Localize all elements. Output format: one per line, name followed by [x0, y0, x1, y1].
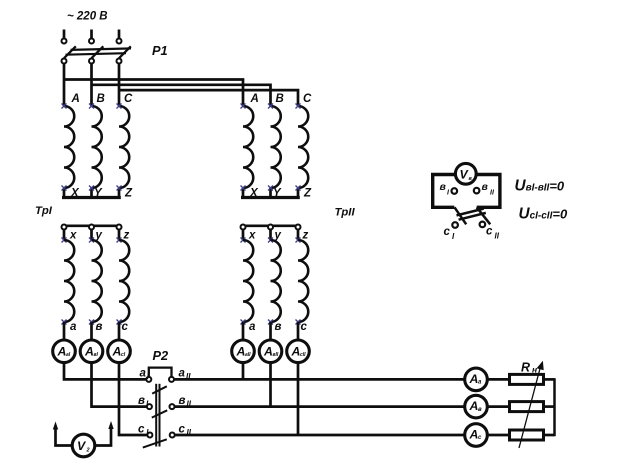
switch P1 blade pole B: [92, 46, 104, 58]
wire b TpI to ammeter: [90, 322, 93, 340]
svg-text:Z: Z: [303, 188, 312, 200]
svg-text:A: A: [250, 93, 259, 105]
winding TpII secondary c: [298, 240, 308, 322]
switch P2 closed bridge phase a: [149, 368, 172, 377]
svg-text:B: B: [97, 93, 105, 105]
wire resistor a to bus: [544, 378, 555, 381]
winding TpI secondary b: [92, 240, 102, 322]
switch P2 blade phase c: [143, 439, 167, 447]
inset terminal circle cI: [452, 222, 458, 228]
terminal x-mark a bottom TpI: [62, 320, 67, 325]
wire y terminal to TpI secondary winding: [90, 230, 93, 240]
svg-text:P1: P1: [152, 43, 168, 58]
wire Ac to resistor c: [487, 434, 510, 437]
inset jumper parallel rail upper: [457, 209, 484, 216]
ammeter AcI: [108, 340, 131, 363]
svg-text:a: a: [140, 368, 147, 380]
variable resistor arrow shaft: [519, 366, 541, 449]
wire Aa to resistor a: [487, 378, 510, 381]
svg-text:cI: cI: [121, 352, 126, 358]
terminal x-mark X TpII: [241, 186, 246, 191]
star bar TpI primary X-Y-Z: [62, 196, 121, 199]
winding TpII primary C: [298, 106, 308, 188]
terminal x-mark x top TpII secondary: [241, 238, 246, 243]
svg-text:Z: Z: [124, 188, 133, 200]
wire TpI winding A bottom to star bar: [63, 188, 66, 198]
inset terminal circle bI: [452, 188, 458, 194]
svg-text:R: R: [521, 361, 530, 375]
supply terminal stub phase C: [118, 30, 121, 39]
winding TpII primary B: [271, 106, 281, 188]
inset terminal circle bII: [474, 188, 480, 194]
svg-text:A: A: [112, 345, 122, 359]
svg-text:P2: P2: [153, 348, 169, 363]
switch P2 terminal aI: [146, 377, 151, 382]
winding TpII secondary a: [243, 240, 253, 322]
switch P1 crossbar upper line: [71, 48, 132, 50]
wire Ab to resistor b: [487, 405, 510, 408]
resistor Rn phase a: [510, 374, 544, 384]
svg-text:A: A: [71, 93, 80, 105]
terminal x-mark x top TpI secondary: [62, 238, 67, 243]
terminal x-mark C top TpI: [117, 104, 122, 109]
wire a TpI to ammeter: [63, 322, 66, 340]
switch P2 blade phase b: [152, 410, 167, 417]
wire TpII phase c down to line c: [297, 362, 300, 435]
terminal x-mark z top TpII secondary: [296, 238, 301, 243]
resistor Rn phase b: [510, 402, 544, 412]
voltmeter V2 right probe wire: [95, 428, 112, 446]
terminal x-mark c bottom TpII: [296, 320, 301, 325]
svg-text:в: в: [138, 395, 145, 407]
terminal x-mark A top TpI: [62, 104, 67, 109]
svg-text:c: c: [486, 226, 493, 238]
ammeter Ac load: [465, 424, 488, 447]
wire TpI phase b to P2 terminal bI: [92, 362, 147, 406]
switch P1 lower terminal circle C: [117, 59, 122, 64]
switch P1 lower terminal circle A: [62, 59, 67, 64]
switch P2 terminal cI: [147, 433, 152, 438]
terminal x-mark c bottom TpI: [117, 320, 122, 325]
ammeter Ab load: [465, 395, 488, 418]
svg-text:c: c: [138, 424, 145, 436]
wire TpII winding C bottom to star bar: [297, 188, 300, 198]
inset jumper right diagonal: [477, 207, 491, 224]
svg-text:вI: вI: [94, 352, 99, 358]
svg-text:A: A: [263, 345, 273, 359]
switch P2 shaft right line: [159, 384, 161, 447]
switch P2 blade phase a: [152, 386, 167, 393]
bus wire phase C to TpII: [119, 90, 298, 106]
svg-text:C: C: [303, 93, 312, 105]
svg-text:x: x: [248, 230, 256, 242]
wire TpI phase c to P2 terminal cI: [119, 362, 147, 435]
wire a TpII to ammeter: [242, 322, 245, 340]
svg-text:~ 220 В: ~ 220 В: [67, 11, 108, 23]
switch P1 crossbar lower line: [66, 53, 127, 55]
svg-text:A: A: [469, 399, 479, 413]
inset box outline: [433, 175, 500, 208]
voltmeter V2 right probe arrowhead: [108, 421, 113, 429]
terminal x-mark B top TpII: [268, 104, 273, 109]
terminal x-mark C top TpII: [296, 104, 301, 109]
bus wire phase A to TpII: [64, 80, 243, 107]
svg-text:cII: cII: [300, 352, 306, 358]
svg-text:II: II: [495, 232, 500, 241]
supply terminal stub phase A: [63, 30, 66, 39]
wire phase B down to TpI winding B: [90, 64, 93, 106]
switch P2 terminal bI: [147, 404, 152, 409]
svg-text:2: 2: [86, 448, 90, 454]
wire x terminal to TpII secondary winding: [242, 230, 245, 240]
svg-text:c: c: [301, 321, 308, 333]
svg-text:в: в: [440, 181, 447, 193]
svg-text:в: в: [179, 395, 186, 407]
wire phase C down to TpI winding C: [118, 64, 121, 106]
svg-text:TpII: TpII: [335, 207, 356, 219]
winding TpII secondary b: [271, 240, 281, 322]
supply terminal circle C: [117, 39, 122, 44]
winding TpI primary C: [119, 106, 129, 188]
wire TpII phase a down to line a: [242, 362, 245, 379]
terminal circle x TpII: [241, 225, 246, 230]
terminal x-mark a bottom TpII: [241, 320, 246, 325]
terminal circle z TpII: [296, 225, 301, 230]
svg-text:A: A: [84, 345, 94, 359]
ammeter AcII: [287, 340, 310, 363]
inset jumper parallel rail lower: [459, 213, 486, 220]
inset terminal circle cII: [480, 222, 486, 228]
terminal x-mark b bottom TpII: [268, 320, 273, 325]
svg-text:c: c: [444, 226, 451, 238]
switch P2 terminal aII: [169, 377, 174, 382]
terminal x-mark Z TpI: [117, 186, 122, 191]
terminal x-mark B top TpI: [89, 104, 94, 109]
wire resistor c to bus: [544, 434, 555, 437]
wire phase A down to TpI winding A: [63, 64, 66, 106]
wire c TpII to ammeter: [297, 322, 300, 340]
switch P2 terminal cII: [170, 433, 175, 438]
winding TpI primary A: [64, 106, 74, 188]
wire x terminal to TpI secondary winding: [63, 230, 66, 240]
ammeter AbII: [259, 340, 282, 363]
terminal x-mark Y TpI: [89, 186, 94, 191]
star bar TpII primary X-Y-Z: [241, 196, 300, 199]
svg-text:вII: вII: [273, 352, 279, 358]
svg-text:X: X: [249, 188, 259, 200]
ammeter AbI: [80, 340, 103, 363]
inset voltmeter V circle: [455, 163, 476, 184]
svg-text:в: в: [482, 181, 489, 193]
wire TpII winding A bottom to star bar: [242, 188, 245, 198]
svg-text:C: C: [124, 93, 133, 105]
wire b TpII to ammeter: [269, 322, 272, 340]
svg-text:в: в: [275, 321, 282, 333]
svg-text:н: н: [532, 365, 537, 375]
star bar TpII secondary x-y-z: [243, 224, 298, 227]
ammeter AaI: [53, 340, 76, 363]
wire TpI winding C bottom to star bar: [118, 188, 121, 198]
wire c TpI to ammeter: [118, 322, 121, 340]
star bar TpI secondary x-y-z: [64, 224, 119, 227]
svg-text:x: x: [69, 230, 77, 242]
svg-text:B: B: [276, 93, 284, 105]
terminal x-mark y top TpII secondary: [268, 238, 273, 243]
terminal circle y TpI: [89, 225, 94, 230]
svg-text:A: A: [469, 372, 479, 386]
winding TpI primary B: [92, 106, 102, 188]
terminal circle z TpI: [117, 225, 122, 230]
terminal circle x TpI: [62, 225, 67, 230]
terminal x-mark A top TpII: [241, 104, 246, 109]
wire TpII phase b down to line b: [269, 362, 272, 406]
line b from P2 to load: [175, 405, 465, 408]
wire y terminal to TpII secondary winding: [269, 230, 272, 240]
ammeter AaII: [232, 340, 255, 363]
bus wire phase B to TpII: [92, 85, 271, 106]
resistor Rn phase c: [510, 430, 544, 440]
svg-text:A: A: [469, 428, 479, 442]
supply terminal stub phase B: [90, 30, 93, 39]
wire z terminal to TpI secondary winding: [118, 230, 121, 240]
wire z terminal to TpII secondary winding: [297, 230, 300, 240]
wire resistor b to bus: [544, 405, 555, 408]
svg-text:aII: aII: [245, 352, 251, 358]
ammeter Aa load: [465, 368, 488, 391]
switch P1 blade pole A: [64, 46, 76, 58]
voltmeter V2 circle: [72, 434, 95, 457]
svg-text:A: A: [57, 345, 67, 359]
svg-text:Y: Y: [94, 188, 103, 200]
voltmeter V2 left probe arrowhead: [53, 422, 58, 430]
terminal circle y TpII: [268, 225, 273, 230]
svg-text:A: A: [236, 345, 246, 359]
switch P1 blade pole C: [119, 46, 131, 58]
svg-text:в: в: [478, 407, 482, 413]
terminal x-mark Z TpII: [296, 186, 301, 191]
wire TpI winding B bottom to star bar: [90, 188, 93, 198]
svg-text:aI: aI: [66, 352, 71, 358]
terminal x-mark Y TpII: [268, 186, 273, 191]
line a from P2 to load: [174, 378, 465, 381]
svg-text:a: a: [249, 321, 256, 333]
winding TpI secondary a: [64, 240, 74, 322]
svg-text:в: в: [96, 321, 103, 333]
svg-text:a: a: [179, 368, 186, 380]
svg-text:X: X: [70, 188, 80, 200]
voltmeter V2 left probe wire: [56, 428, 73, 446]
switch P1 lower terminal circle B: [89, 59, 94, 64]
terminal x-mark z top TpI secondary: [117, 238, 122, 243]
winding TpI secondary c: [119, 240, 129, 322]
svg-text:Y: Y: [273, 188, 282, 200]
supply terminal circle A: [62, 39, 67, 44]
svg-text:A: A: [291, 345, 301, 359]
svg-text:a: a: [70, 321, 77, 333]
switch P2 terminal bII: [170, 404, 175, 409]
load common bus vertical: [553, 378, 556, 436]
wire TpI phase a to P2 terminal aI: [64, 362, 146, 379]
terminal x-mark X TpI: [62, 186, 67, 191]
variable resistor arrowhead: [537, 361, 544, 370]
terminal x-mark b bottom TpI: [89, 320, 94, 325]
terminal x-mark y top TpI secondary: [89, 238, 94, 243]
inset jumper left diagonal: [455, 207, 467, 224]
svg-text:c: c: [122, 321, 129, 333]
switch P2 shaft left line: [155, 384, 157, 447]
line c from P2 to load: [175, 434, 465, 437]
wire TpII winding B bottom to star bar: [269, 188, 272, 198]
winding TpII primary A: [243, 106, 253, 188]
supply terminal circle B: [89, 39, 94, 44]
svg-text:TpI: TpI: [35, 205, 53, 217]
